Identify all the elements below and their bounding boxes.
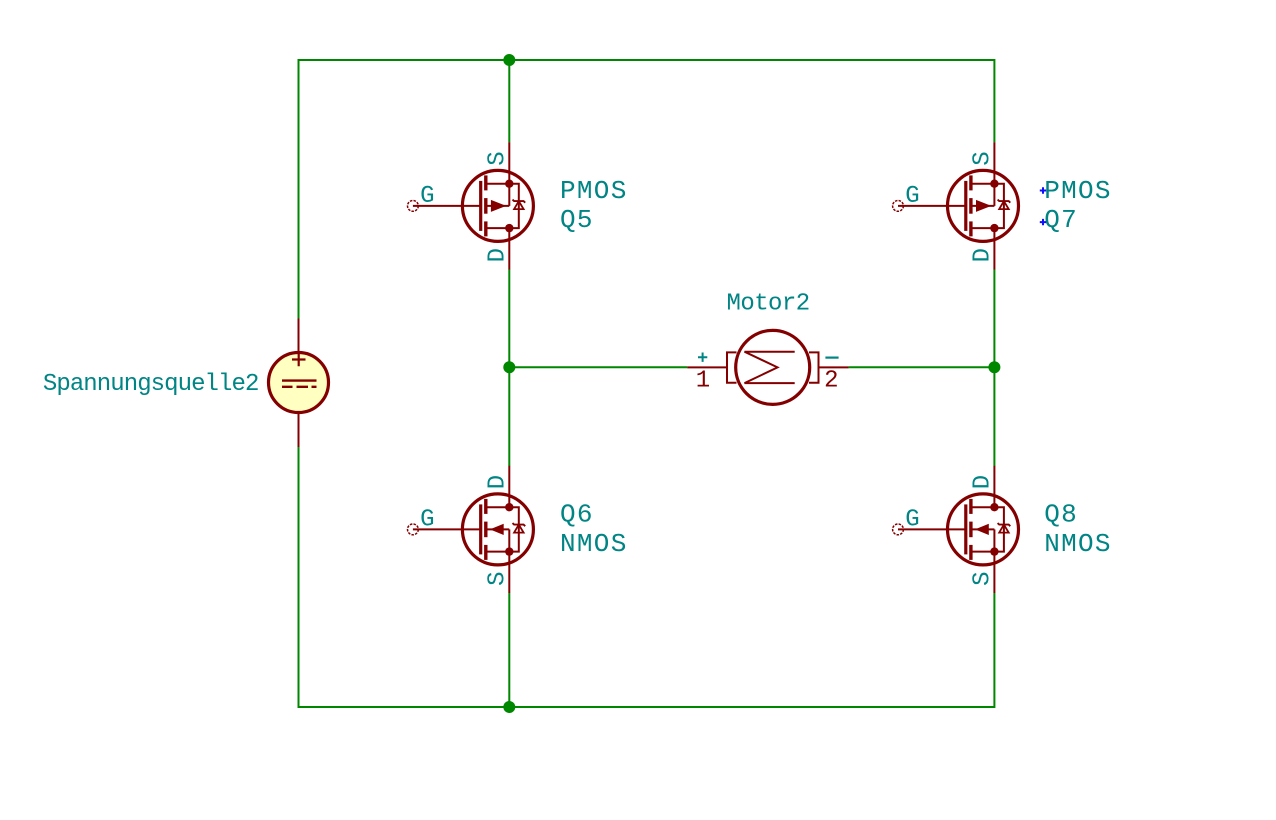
wire left branch lower bbox=[508, 593, 510, 707]
source top pin bbox=[298, 319, 300, 352]
wire right rail node-to-Q8 bbox=[993, 367, 995, 466]
svg-text:D: D bbox=[485, 248, 512, 262]
wire right rail upper bbox=[993, 59, 995, 142]
svg-text:G: G bbox=[420, 183, 434, 210]
svg-text:PMOS: PMOS bbox=[1044, 176, 1112, 206]
motor pin 2 line bbox=[819, 366, 849, 368]
wire left rail upper bbox=[298, 59, 300, 319]
wire motor right bbox=[849, 366, 995, 368]
Q5 arrow bbox=[491, 200, 506, 212]
source battery solid line bbox=[282, 379, 317, 381]
Q6 middle-to-source connector bbox=[508, 529, 510, 551]
motor pin 1 line bbox=[687, 366, 727, 368]
junction mid-left bbox=[503, 361, 515, 373]
wire right rail Q7-to-node bbox=[993, 269, 995, 367]
voltage source V1 Spannungsquelle2 bbox=[43, 319, 329, 448]
motor sigma bbox=[745, 352, 795, 383]
svg-text:G: G bbox=[420, 507, 434, 534]
motor pin name minus bbox=[825, 357, 838, 359]
svg-text:S: S bbox=[970, 571, 997, 585]
svg-text:NMOS: NMOS bbox=[560, 529, 628, 559]
source bottom pin bbox=[298, 414, 300, 447]
motor M1 Motor2 bbox=[687, 291, 848, 405]
junction mid-right bbox=[988, 361, 1000, 373]
svg-text:Motor2: Motor2 bbox=[727, 291, 810, 318]
Q8 arrow bbox=[975, 524, 989, 535]
svg-text:NMOS: NMOS bbox=[1044, 529, 1112, 559]
svg-text:Q7: Q7 bbox=[1044, 205, 1078, 235]
svg-text:Q8: Q8 bbox=[1044, 499, 1078, 529]
transistor Q5 PMOS bbox=[408, 142, 628, 269]
Q5 source-to-middle connector bbox=[508, 184, 510, 206]
svg-text:1: 1 bbox=[696, 368, 710, 395]
junction top bbox=[503, 54, 515, 66]
svg-text:S: S bbox=[485, 151, 512, 165]
svg-text:S: S bbox=[485, 571, 512, 585]
Q7 reference anchor cross bbox=[1040, 219, 1046, 225]
junction bottom bbox=[503, 701, 515, 713]
svg-text:Q6: Q6 bbox=[560, 499, 594, 529]
wire left branch Q5-to-node bbox=[508, 269, 510, 367]
wire motor left bbox=[509, 366, 687, 368]
svg-text:Q5: Q5 bbox=[560, 205, 594, 235]
Q7 arrow bbox=[976, 200, 991, 212]
source body circle bbox=[269, 353, 329, 413]
svg-text:G: G bbox=[905, 183, 919, 210]
motor left bracket bbox=[727, 352, 737, 382]
svg-text:D: D bbox=[485, 475, 512, 489]
transistor Q6 NMOS bbox=[408, 466, 628, 593]
source plus sign bbox=[292, 353, 306, 367]
motor right bracket bbox=[809, 352, 819, 382]
Q7 source-to-middle connector bbox=[993, 184, 995, 206]
wire left rail lower bbox=[298, 447, 300, 708]
Q6 arrow bbox=[490, 524, 504, 535]
Q7 value anchor cross bbox=[1040, 187, 1046, 193]
transistor Q8 NMOS bbox=[893, 466, 1112, 593]
svg-text:G: G bbox=[905, 507, 919, 534]
svg-text:Spannungsquelle2: Spannungsquelle2 bbox=[43, 371, 259, 398]
wire bottom rail bbox=[299, 706, 995, 708]
svg-text:2: 2 bbox=[824, 368, 838, 395]
wire left branch node-to-Q6 bbox=[508, 367, 510, 466]
transistor Q7 PMOS bbox=[893, 142, 1112, 269]
svg-text:PMOS: PMOS bbox=[560, 176, 628, 206]
Q8 middle-to-source connector bbox=[993, 529, 995, 551]
svg-text:D: D bbox=[970, 248, 997, 262]
source battery dashed line bbox=[282, 386, 317, 388]
svg-text:S: S bbox=[970, 151, 997, 165]
motor body circle bbox=[736, 330, 810, 404]
wire top rail bbox=[299, 59, 995, 61]
motor pin name plus bbox=[698, 353, 707, 362]
wire left branch upper bbox=[508, 60, 510, 142]
wire right rail lower bbox=[993, 593, 995, 708]
svg-text:D: D bbox=[970, 475, 997, 489]
